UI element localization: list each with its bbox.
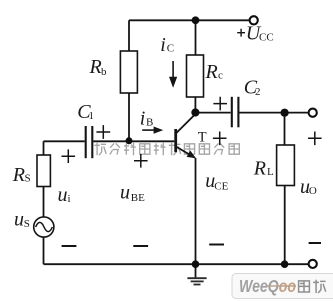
svg-text:i: i	[140, 108, 146, 130]
svg-text:C: C	[167, 42, 174, 54]
svg-text:S: S	[24, 218, 30, 230]
svg-text:CC: CC	[259, 32, 274, 44]
svg-text:R: R	[205, 61, 218, 83]
svg-text:CE: CE	[214, 181, 228, 193]
svg-text:S: S	[25, 173, 31, 185]
svg-text:B: B	[146, 116, 153, 128]
svg-text:u: u	[14, 209, 24, 231]
svg-text:2: 2	[255, 86, 261, 98]
svg-text:u: u	[58, 184, 68, 206]
svg-text:b: b	[101, 66, 107, 78]
svg-text:O: O	[309, 185, 317, 197]
svg-text:R: R	[12, 164, 25, 186]
svg-text:c: c	[218, 69, 223, 81]
svg-text:i: i	[68, 193, 71, 205]
svg-text:u: u	[120, 181, 130, 203]
svg-text:R: R	[253, 158, 266, 180]
svg-text:1: 1	[89, 110, 95, 122]
svg-text:i: i	[160, 34, 166, 56]
svg-text:T: T	[198, 130, 207, 146]
svg-text:BE: BE	[131, 192, 145, 204]
svg-text:R: R	[89, 56, 102, 78]
svg-text:L: L	[267, 166, 274, 178]
